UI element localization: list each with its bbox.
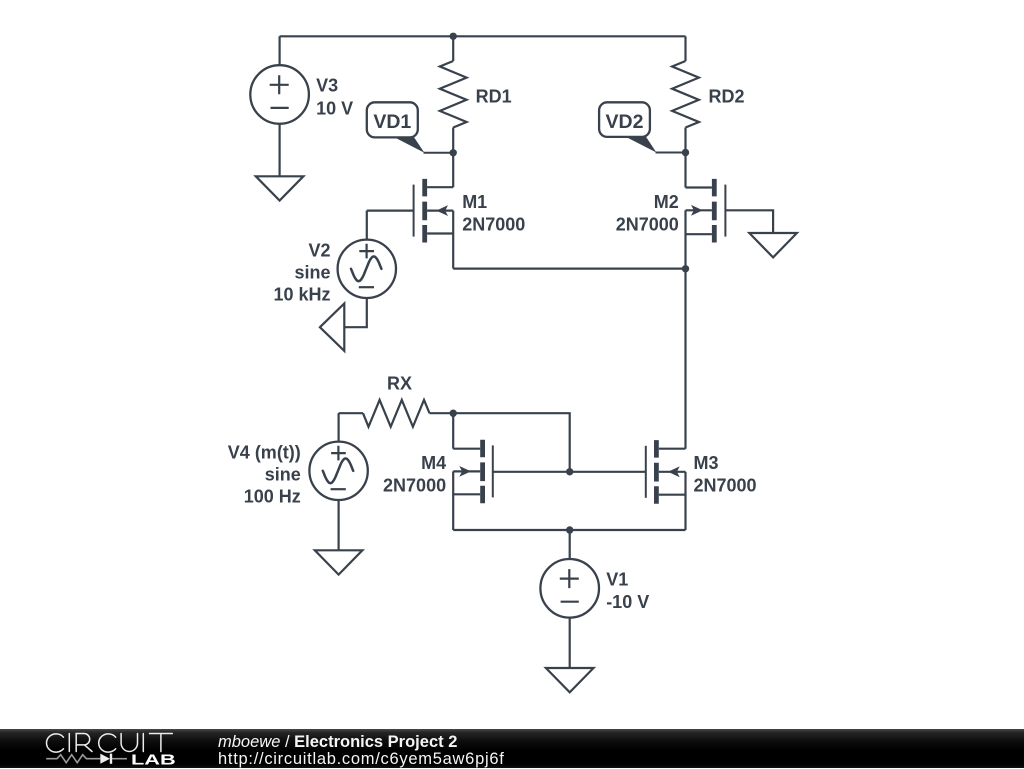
- junction node VD2: [682, 149, 689, 156]
- ground (V2, pointing left): [320, 304, 344, 351]
- ground (V3): [256, 176, 304, 200]
- svg-text:sine: sine: [265, 465, 301, 485]
- node VD1 flag: [367, 102, 453, 153]
- svg-text:V4 (m(t)): V4 (m(t)): [228, 443, 301, 463]
- wire top rail: [280, 35, 686, 37]
- svg-text:V3: V3: [316, 76, 338, 96]
- CircuitLab logo resistor-diode squiggle: [46, 754, 127, 764]
- ground (V1): [546, 668, 594, 692]
- svg-text:-10 V: -10 V: [606, 592, 649, 612]
- transistor M2: [686, 179, 774, 269]
- svg-text:VD2: VD2: [606, 111, 644, 133]
- junction node source rail: [682, 265, 689, 272]
- svg-text:M2: M2: [654, 192, 679, 212]
- resistor RX: [339, 400, 454, 427]
- svg-text:100 Hz: 100 Hz: [244, 487, 301, 507]
- svg-text:10 kHz: 10 kHz: [273, 285, 330, 305]
- wire bottom rail: [453, 529, 685, 531]
- transistor M4: [453, 413, 493, 530]
- svg-text:VD1: VD1: [373, 111, 411, 133]
- svg-text:sine: sine: [294, 263, 330, 283]
- svg-text:RX: RX: [387, 374, 412, 394]
- svg-text:2N7000: 2N7000: [616, 214, 679, 234]
- resistor RD1: [440, 36, 467, 187]
- svg-text:2N7000: 2N7000: [383, 476, 446, 496]
- svg-text:M3: M3: [694, 453, 719, 473]
- svg-text:2N7000: 2N7000: [694, 476, 757, 496]
- junction node top rail / RD1: [450, 33, 457, 40]
- transistor M3: [646, 440, 686, 530]
- svg-text:2N7000: 2N7000: [462, 214, 525, 234]
- junction node gate row: [566, 468, 573, 475]
- junction node bottom rail / V1: [566, 526, 573, 533]
- resistor RD2: [672, 36, 699, 187]
- node VD2 flag: [599, 102, 685, 152]
- footer title line: [218, 733, 457, 752]
- voltage source V3: [250, 36, 309, 176]
- ground (V4): [315, 550, 363, 574]
- CircuitLab logo diode triangle: [100, 754, 110, 764]
- svg-text:10 V: 10 V: [316, 98, 353, 118]
- svg-text:M1: M1: [462, 192, 487, 212]
- svg-text:V2: V2: [308, 241, 330, 261]
- svg-text:V1: V1: [606, 569, 628, 589]
- ground (M2 gate): [749, 233, 797, 257]
- junction node RX: [450, 410, 457, 417]
- wire RX node to gates: [453, 413, 570, 472]
- svg-text:M4: M4: [421, 453, 446, 473]
- voltage source V1: [540, 530, 599, 668]
- CircuitLab wordmark CIRCUIT: [47, 734, 173, 753]
- transistor M1: [367, 179, 453, 269]
- svg-text:RD2: RD2: [709, 87, 745, 107]
- wire M3 drain lead: [684, 269, 686, 449]
- voltage source V4: [309, 413, 367, 550]
- voltage source V2: [338, 211, 396, 328]
- svg-text:RD1: RD1: [476, 87, 512, 107]
- wire gate row M4-M3: [493, 471, 646, 473]
- svg-text:LAB: LAB: [131, 751, 176, 768]
- wire source rail M1-M2: [453, 268, 685, 270]
- junction node VD1: [450, 149, 457, 156]
- footer url line: [218, 750, 505, 769]
